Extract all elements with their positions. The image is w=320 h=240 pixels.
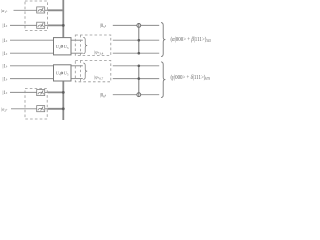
big brace bottom group	[161, 62, 165, 98]
wire q2 left	[10, 24, 37, 26]
svg-text:|1›: |1›	[3, 65, 8, 70]
classical wire from M2	[48, 24, 64, 26]
gate box U4xU5	[54, 65, 72, 81]
CNOT top: vertical	[138, 23, 140, 53]
wire stub after meter M1	[45, 9, 48, 11]
CNOT bottom: target on q8	[137, 93, 141, 97]
wire q4 right segment	[113, 52, 159, 54]
wire q3 out of U box	[71, 39, 83, 41]
wire stub after meter M7	[45, 91, 48, 93]
meter M1	[37, 7, 45, 13]
wire q7 left	[10, 91, 37, 93]
wire q7 right segment	[113, 78, 159, 80]
small brace psi34	[83, 37, 87, 53]
CNOT top: control on q4	[138, 52, 141, 55]
classical wire from M1	[48, 9, 64, 11]
CNOT top: control on q3	[138, 39, 141, 42]
CNOT bottom: control on q6	[138, 65, 141, 68]
meter M7	[37, 90, 45, 96]
svg-text:(α|000> + β|111>)345: (α|000> + β|111>)345	[171, 36, 212, 43]
svg-text:|08›: |08›	[100, 93, 107, 98]
wire q3 left	[10, 39, 54, 41]
classical wire from M8	[48, 108, 64, 110]
dashed state box psi34	[75, 35, 111, 56]
classical vertical bus to U23	[62, 0, 64, 38]
dashed cut line in psi67 box	[79, 61, 81, 82]
dashed state box psi67	[75, 61, 111, 82]
wire q5 ancilla segment	[113, 24, 159, 26]
svg-text:|1›: |1›	[3, 24, 8, 29]
wire q5 left	[10, 65, 54, 67]
junction node at M7 line	[62, 91, 65, 94]
meter M8	[37, 106, 45, 112]
dashed cut line in psi34 box	[79, 35, 81, 56]
wire q6 out of U box	[71, 78, 83, 80]
svg-text:(γ|000> + δ|111>)678: (γ|000> + δ|111>)678	[171, 74, 211, 81]
wire q5 out of U box	[71, 65, 83, 67]
svg-text:|05›: |05›	[100, 24, 107, 29]
wire q8 ancilla segment	[113, 94, 159, 96]
classical vertical bus to U45	[62, 81, 64, 120]
wire stub after meter M2	[45, 24, 48, 26]
wire q4 out of U box	[71, 52, 83, 54]
wire q8 left	[11, 108, 37, 110]
classical wire from M7	[48, 91, 64, 93]
meter M2	[37, 22, 45, 28]
svg-text:|1›: |1›	[3, 52, 8, 57]
dashed measurement box bottom-left	[25, 89, 47, 120]
wire q6 right segment	[113, 65, 159, 67]
small brace psi67	[83, 63, 87, 79]
big brace top group	[161, 23, 165, 57]
svg-text:|1›: |1›	[3, 77, 8, 82]
CNOT bottom: control on q7	[138, 77, 141, 80]
junction node at M2 line	[62, 24, 65, 27]
dashed measurement box top-left	[25, 1, 48, 31]
wire q6 left	[10, 78, 54, 80]
svg-text:|1›: |1›	[3, 39, 8, 44]
junction node at M8 line	[62, 107, 65, 110]
wire stub after meter M8	[45, 108, 48, 110]
wire q1 left	[14, 9, 37, 11]
wire q3 right segment	[113, 39, 159, 41]
wire q4 left	[10, 52, 54, 54]
svg-text:|1›: |1›	[3, 91, 8, 96]
gate box U2xU3	[54, 38, 72, 55]
CNOT top: target on q5	[137, 24, 141, 28]
CNOT bottom: vertical	[138, 66, 140, 97]
